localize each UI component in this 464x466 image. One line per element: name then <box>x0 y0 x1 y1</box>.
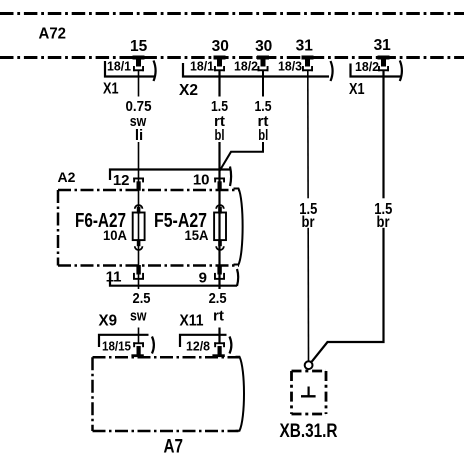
svg-text:X9: X9 <box>99 313 118 330</box>
svg-text:12/8: 12/8 <box>186 339 210 354</box>
svg-text:30: 30 <box>255 38 272 55</box>
svg-text:18/3: 18/3 <box>278 59 302 74</box>
svg-text:12: 12 <box>113 172 130 189</box>
svg-text:XB.31.R: XB.31.R <box>280 421 338 442</box>
svg-text:15A: 15A <box>185 228 209 243</box>
svg-text:2.5: 2.5 <box>209 290 227 307</box>
svg-text:X1: X1 <box>103 81 119 98</box>
svg-text:11: 11 <box>106 269 122 286</box>
svg-text:rt: rt <box>213 307 224 324</box>
svg-text:18/2: 18/2 <box>234 59 258 74</box>
svg-text:10: 10 <box>193 172 210 189</box>
svg-text:18/1: 18/1 <box>190 59 214 74</box>
svg-text:30: 30 <box>212 38 229 55</box>
svg-text:9: 9 <box>199 270 207 287</box>
svg-text:31: 31 <box>374 37 392 54</box>
svg-text:A72: A72 <box>39 26 67 43</box>
svg-text:X1: X1 <box>349 81 365 98</box>
svg-text:sw: sw <box>130 307 147 324</box>
svg-text:10A: 10A <box>103 228 127 243</box>
svg-text:18/2: 18/2 <box>355 59 379 74</box>
svg-text:15: 15 <box>130 38 148 55</box>
svg-text:bl: bl <box>215 127 225 144</box>
svg-text:31: 31 <box>296 37 314 54</box>
svg-text:A7: A7 <box>164 436 184 458</box>
svg-text:A2: A2 <box>58 169 76 185</box>
svg-text:li: li <box>135 127 143 144</box>
svg-text:br: br <box>377 214 390 231</box>
svg-text:2.5: 2.5 <box>133 290 151 307</box>
svg-text:bl: bl <box>258 127 268 144</box>
svg-text:18/1: 18/1 <box>107 59 131 74</box>
svg-text:br: br <box>302 214 315 231</box>
svg-text:18/15: 18/15 <box>102 339 131 354</box>
svg-text:X11: X11 <box>180 313 204 330</box>
svg-text:X2: X2 <box>179 82 198 99</box>
